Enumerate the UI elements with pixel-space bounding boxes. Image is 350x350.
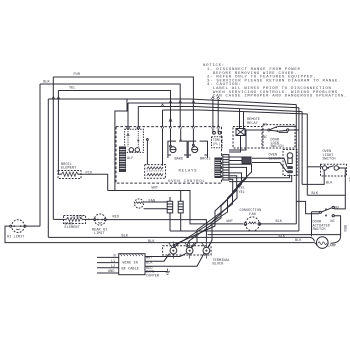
svg-text:SWITCH: SWITCH xyxy=(271,145,284,149)
wire left vertical bus1 drop xyxy=(47,99,49,237)
svg-text:HI LIMIT: HI LIMIT xyxy=(7,236,24,240)
bake element coil xyxy=(67,217,83,221)
relay BROIL bracket and coil xyxy=(188,141,207,158)
svg-text:RED: RED xyxy=(113,216,120,220)
wire v4 to door actuated NO xyxy=(307,194,345,196)
wire WHT run under control box xyxy=(108,191,243,224)
sub-box upper left inside control xyxy=(125,129,144,152)
convection fan xyxy=(244,217,261,231)
right vertical v2 xyxy=(298,108,300,231)
wire drop x218.2 into control xyxy=(217,99,219,127)
wire braid from ladder w5 xyxy=(229,175,292,182)
svg-text:BLK: BLK xyxy=(326,182,333,186)
wire bus4 xyxy=(163,110,308,114)
hi limit xyxy=(10,220,26,233)
svg-text:SWITCH: SWITCH xyxy=(313,228,326,232)
wire lower fan line xyxy=(170,230,299,232)
svg-text:ELEMENT: ELEMENT xyxy=(65,226,80,230)
svg-text:LAMP: LAMP xyxy=(328,245,337,249)
wire bake left xyxy=(53,218,65,220)
wire left vertical YEL drop xyxy=(57,91,59,175)
wire braid from ladder w1 xyxy=(208,164,252,247)
remote relay dashed box xyxy=(233,127,262,149)
svg-text:ELEMENT: ELEMENT xyxy=(61,167,76,171)
svg-text:BLK: BLK xyxy=(312,192,319,196)
junction dot bake coil wire xyxy=(180,139,182,141)
wire drop x135 into control xyxy=(137,107,139,127)
wire braid from ladder w3 xyxy=(174,173,242,248)
svg-text:NC: NC xyxy=(331,220,335,224)
svg-text:YEL: YEL xyxy=(69,87,76,91)
wire light switch right to RED drop xyxy=(334,168,345,209)
terminal post 3 xyxy=(202,242,212,259)
wire braid from ladder w2 xyxy=(192,167,247,247)
wire bottom line curve to lamp left xyxy=(309,237,314,241)
svg-text:N: N xyxy=(114,255,116,259)
svg-text:RELAYS: RELAYS xyxy=(179,169,198,173)
junction bumps on buses xyxy=(52,97,220,107)
wire rear hi limit to terminal RED xyxy=(106,220,206,242)
svg-text:YEL: YEL xyxy=(239,191,246,195)
svg-text:BLOCK: BLOCK xyxy=(213,263,225,267)
wire braid from ladder w4 xyxy=(187,176,237,248)
wire bus1 xyxy=(48,99,296,105)
wire sensor harness top xyxy=(229,157,287,167)
svg-text:BX CABLE: BX CABLE xyxy=(122,267,139,271)
wire bake right to rear hi limit xyxy=(84,218,94,220)
svg-text:COPPER: COPPER xyxy=(146,274,160,278)
fan connector block xyxy=(167,201,173,213)
wire stubs left of bx box xyxy=(97,257,119,273)
right vertical v1 xyxy=(295,105,297,224)
svg-text:SWITCH: SWITCH xyxy=(323,158,336,162)
terminal post 1 xyxy=(169,242,179,259)
wire in bx cable box xyxy=(119,254,145,275)
bake element dashed box xyxy=(64,216,86,224)
wire remote relay feed 1 xyxy=(239,109,241,129)
wire fan to right bus BLK xyxy=(261,223,297,225)
junction arrow on YEL drop xyxy=(169,118,172,126)
wire bus3 xyxy=(138,107,302,112)
svg-text:OVEN CONTROL: OVEN CONTROL xyxy=(168,180,205,184)
wire drop x122 into control xyxy=(127,103,129,127)
svg-text:BLK: BLK xyxy=(43,80,50,84)
svg-text:NC: NC xyxy=(263,136,267,140)
oven sensor dashed box xyxy=(283,150,297,176)
broil element coil xyxy=(62,172,79,176)
svg-text:WHT: WHT xyxy=(227,220,234,224)
junction arrows at box top xyxy=(161,125,220,128)
wire light switch feed xyxy=(307,166,322,168)
wire broil left xyxy=(58,173,60,175)
svg-text:BROIL: BROIL xyxy=(200,157,211,161)
relay BAKE bracket and coil xyxy=(168,141,187,158)
svg-text:BLK: BLK xyxy=(122,235,129,239)
wire drops inside box xyxy=(127,127,129,129)
wire connector pins verticals xyxy=(170,191,181,232)
oven control dashed box xyxy=(116,127,222,184)
wire hi limit right to BLK vertical xyxy=(26,225,40,227)
pin circles on relay drops xyxy=(170,144,195,147)
wire drop x212.9 into control xyxy=(212,99,214,127)
svg-text:GND: GND xyxy=(108,270,115,274)
svg-text:WIRE IN: WIRE IN xyxy=(123,261,138,265)
sensor harness connector xyxy=(242,157,251,164)
wire BARE to ground xyxy=(145,271,168,273)
relay connector 2 xyxy=(178,201,183,213)
ground symbol xyxy=(165,269,170,275)
TIME PL component xyxy=(212,131,223,147)
groups inserted below xyxy=(203,64,347,99)
svg-text:CAN CAUSE IMPROPER AND DANGERO: CAN CAUSE IMPROPER AND DANGEROUS OPERATI… xyxy=(213,95,347,99)
remote relay coil xyxy=(236,129,245,136)
svg-text:PUR: PUR xyxy=(74,73,81,77)
rear hi limit xyxy=(94,214,106,225)
door lock switch dashed box xyxy=(263,125,295,148)
svg-text:BLK: BLK xyxy=(276,220,283,224)
wire left vertical PUR drop xyxy=(52,77,54,219)
wire BLK top run xyxy=(40,84,180,127)
right vertical v4 xyxy=(306,114,308,195)
oven sensor bulb xyxy=(287,153,293,164)
wire door actuated common from v1 xyxy=(296,201,319,236)
svg-text:NO: NO xyxy=(335,207,339,211)
svg-text:L2: L2 xyxy=(111,265,115,269)
svg-text:BLK: BLK xyxy=(148,240,155,244)
wire remote relay coil bottom xyxy=(229,136,241,153)
wire broil right to control xyxy=(79,174,108,190)
door actuated switch contacts xyxy=(319,206,334,216)
wire lower long line from bus1 drop xyxy=(48,236,309,238)
wire transformer left feed xyxy=(146,141,148,165)
svg-text:L1: L1 xyxy=(111,260,115,264)
wire door lock common xyxy=(229,130,268,150)
wire hi limit left down around xyxy=(5,226,317,246)
wire jog to left side of control box xyxy=(115,99,127,190)
svg-text:WHT: WHT xyxy=(152,187,159,191)
svg-text:PCO: PCO xyxy=(86,171,93,175)
connector ladder right inner xyxy=(215,158,221,178)
connector ladder outer xyxy=(223,155,229,180)
oven lamp xyxy=(317,237,329,249)
wire remote relay feed 2 xyxy=(243,112,245,129)
terminal post 2 xyxy=(185,242,195,259)
wire YEL top run xyxy=(58,91,170,127)
svg-text:BAKE: BAKE xyxy=(175,157,184,161)
svg-text:BLK: BLK xyxy=(279,235,286,239)
transformer xyxy=(145,165,166,179)
broil element dashed box xyxy=(58,171,81,179)
wire BLK to post1 xyxy=(145,253,170,261)
wire light switch left terminal down xyxy=(302,170,324,184)
svg-text:RED: RED xyxy=(342,225,346,232)
wire drop x162.5 into control xyxy=(162,110,164,127)
wire sensor harness bottom xyxy=(229,161,287,172)
oven light switch contacts xyxy=(323,166,341,170)
cooling fan motor xyxy=(134,199,143,208)
svg-text:BLK: BLK xyxy=(146,262,153,266)
right vertical v3 xyxy=(301,112,303,185)
oven light switch dashed box xyxy=(321,164,347,176)
svg-text:NO: NO xyxy=(263,123,267,127)
wire bus2 xyxy=(128,103,299,108)
svg-text:BLK: BLK xyxy=(295,239,302,243)
svg-text:FAN: FAN xyxy=(249,213,256,217)
wire RED to post3 xyxy=(145,253,204,266)
wire door lock NO to right bus xyxy=(277,125,296,127)
wire bottom bus 4th xyxy=(208,234,341,236)
relay ALF dashed circle xyxy=(129,148,133,152)
wire left vertical BLK xyxy=(39,84,41,226)
wire PUR top run xyxy=(53,77,193,127)
wire door lock NC to right bus xyxy=(279,130,299,132)
door lock switch xyxy=(268,126,289,132)
terminal block dashed box xyxy=(163,246,212,255)
connector ladder left xyxy=(120,147,126,171)
svg-text:(PL): (PL) xyxy=(213,142,221,146)
svg-text:RELAY: RELAY xyxy=(247,122,259,126)
wire NC to lamp right xyxy=(331,216,341,244)
svg-text:ALF: ALF xyxy=(127,157,134,161)
oven sensor terminals xyxy=(287,166,293,173)
svg-text:LIMIT: LIMIT xyxy=(94,232,105,236)
wire WHT to post2 xyxy=(145,253,187,256)
fan leads to connector xyxy=(144,202,168,209)
